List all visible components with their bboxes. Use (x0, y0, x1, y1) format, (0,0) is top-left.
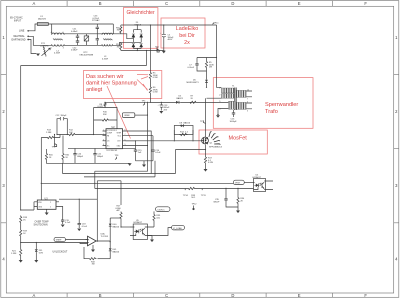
svg-text:680pF: 680pF (97, 156, 104, 158)
resistor R34 (226, 188, 245, 211)
vertical diode rail (109, 218, 111, 259)
svg-text:B: B (99, 1, 102, 6)
svg-text:BAS16: BAS16 (184, 122, 191, 125)
svg-text:A: A (33, 293, 36, 298)
bus wire B (41, 182, 233, 184)
resistor R6 390K (149, 86, 158, 94)
svg-text:F: F (364, 1, 367, 6)
svg-text:0.1uF: 0.1uF (65, 222, 71, 224)
wire ground return bus (21, 51, 147, 211)
main DC+ rail (121, 24, 217, 26)
frame row dividers right (394, 75, 399, 223)
svg-text:0.68uF: 0.68uF (71, 31, 78, 33)
annotation box LadeElko (161, 18, 205, 48)
zener D11 (35, 243, 44, 261)
ground D11 (34, 260, 38, 263)
comp network wire (94, 134, 106, 136)
label OVER TEMP SHUTDOWN (34, 221, 49, 227)
wire R6 to vcc line (149, 94, 151, 102)
frame row dividers left (1, 75, 7, 223)
row labels left (2, 35, 5, 261)
test point TP8 (115, 155, 120, 159)
resistor R51 (116, 42, 122, 50)
gate wire from IC (126, 140, 202, 142)
svg-text:INPUT: INPUT (14, 19, 22, 22)
bridge rectifier D1 label (135, 22, 142, 26)
connector LINE (19, 30, 29, 33)
test point TP5 (147, 102, 148, 146)
secondary winding bottom (237, 101, 252, 112)
svg-text:6: 6 (125, 139, 126, 141)
bridge input wires (112, 34, 141, 46)
svg-text:20V: 20V (164, 109, 168, 111)
ground opto (151, 236, 153, 240)
svg-text:D: D (231, 1, 234, 6)
svg-text:SPL1: SPL1 (214, 23, 220, 25)
svg-text:COMP: COMP (107, 132, 113, 134)
svg-text:F: F (364, 293, 367, 298)
svg-text:anliegt: anliegt (86, 87, 103, 93)
svg-text:A: A (33, 1, 36, 6)
resistor R32 feedback (84, 247, 110, 266)
svg-text:3: 3 (63, 47, 64, 49)
capacitor C12 (56, 115, 68, 135)
net flag 3.3VDC (156, 207, 171, 212)
ground opamp (91, 245, 95, 252)
svg-text:1.38K: 1.38K (46, 132, 52, 134)
net flag VR57 (233, 180, 253, 184)
IC right side caps (126, 140, 142, 161)
svg-text:Gleichrichter: Gleichrichter (127, 10, 155, 16)
resistor R27 (116, 181, 123, 227)
svg-text:0.68uF: 0.68uF (71, 50, 78, 52)
wire opamp plus (80, 243, 86, 244)
svg-text:1W: 1W (92, 264, 95, 266)
heat rays (209, 132, 221, 145)
diode D9 (110, 218, 121, 228)
svg-text:VREF: VREF (124, 115, 130, 117)
common-mode choke L4 (51, 32, 65, 54)
feedback box R10 (94, 108, 117, 135)
svg-text:680nF: 680nF (214, 201, 221, 203)
core (235, 88, 236, 111)
net flag VREF lower (54, 237, 89, 241)
opamp output riser (97, 181, 121, 242)
resistor R39 (150, 211, 161, 227)
test point TP1 (155, 47, 160, 53)
resistor R33 (183, 187, 207, 199)
wire between (149, 80, 151, 87)
svg-text:1000pF: 1000pF (230, 121, 238, 123)
svg-text:BAS16: BAS16 (113, 225, 120, 228)
svg-text:C: C (165, 1, 168, 6)
svg-text:Das suchen wir: Das suchen wir (86, 74, 124, 80)
ground caps (128, 163, 132, 166)
svg-text:UVLOCKOUT: UVLOCKOUT (53, 251, 68, 254)
frame column dividers bottom (67, 293, 332, 297)
svg-text:680pF: 680pF (77, 156, 84, 158)
varistor RT1 (40, 43, 50, 56)
wire rail down to T1 (217, 25, 222, 87)
svg-text:SPP04N80C3: SPP04N80C3 (209, 147, 223, 149)
resistor R19 (20, 224, 28, 243)
optocoupler U4 (121, 220, 152, 240)
primary winding (207, 87, 235, 98)
wire from rail down (149, 25, 151, 72)
svg-text:Trafo: Trafo (265, 109, 278, 115)
resistor R18 (20, 216, 28, 224)
resistor R7 (189, 96, 197, 104)
svg-text:0.1uF: 0.1uF (82, 226, 88, 228)
AC top rail after fuse (48, 24, 113, 34)
svg-text:3.3VDC: 3.3VDC (157, 209, 165, 211)
svg-text:LINE: LINE (19, 30, 25, 33)
bridge bottom rail (121, 49, 165, 51)
net flag /C_LOAD (172, 225, 185, 230)
svg-text:1: 1 (51, 47, 52, 49)
diode D6 (187, 69, 208, 88)
connector EARTH/GND (12, 38, 29, 41)
svg-text:EARTH/GND: EARTH/GND (12, 38, 26, 41)
capacitor C20 (73, 149, 84, 164)
svg-text:39K: 39K (103, 114, 107, 116)
diode D41 (109, 248, 120, 254)
svg-text:4.3mH: 4.3mH (54, 53, 61, 55)
svg-text:1.33K: 1.33K (11, 253, 17, 255)
svg-text:damit hier Spannung: damit hier Spannung (86, 80, 137, 86)
svg-text:D: D (231, 293, 234, 298)
transistor Q1 (202, 137, 214, 144)
ground IC caps (142, 165, 146, 168)
secondary winding top (237, 89, 252, 100)
svg-text:OUT: OUT (117, 141, 121, 143)
connector NEUTRAL (14, 35, 29, 38)
snubber top bar (197, 58, 217, 63)
svg-text:2: 2 (50, 202, 51, 204)
diode D5 (176, 96, 184, 104)
resistor R5 390K (149, 72, 158, 80)
annotation box Das suchen wir (84, 71, 162, 99)
frame column dividers top (67, 1, 332, 7)
svg-text:SHUTDOWN: SHUTDOWN (34, 224, 48, 227)
capacitor C18 (59, 199, 97, 232)
svg-text:UCC38C45: UCC38C45 (107, 150, 118, 152)
test point TP4 (52, 134, 57, 149)
wire NEUTRAL to choke (29, 36, 52, 45)
svg-text:5: 5 (50, 207, 51, 209)
resistor R21 (11, 249, 22, 261)
row labels right (395, 35, 398, 261)
capacitor C53 (92, 16, 100, 46)
left rail down (40, 138, 42, 184)
diode D8 (174, 122, 193, 135)
common-mode choke L3 (102, 33, 112, 60)
svg-text:TP12: TP12 (192, 204, 198, 206)
capacitor C13 (158, 102, 171, 112)
svg-text:10 Ohms: 10 Ohms (40, 46, 48, 48)
capacitor C35 (214, 188, 228, 204)
svg-text:390pF: 390pF (61, 115, 68, 117)
wire rail to IC (41, 135, 93, 138)
resistor R17 (204, 156, 212, 164)
test point TP7 (200, 121, 206, 124)
svg-text:TLC393: TLC393 (101, 236, 109, 238)
ground earth (36, 54, 40, 57)
svg-text:1W: 1W (117, 30, 120, 32)
svg-text:7: 7 (247, 99, 248, 101)
svg-text:TP14: TP14 (183, 195, 189, 197)
annotation leader diagonal to IC pin (107, 86, 131, 139)
svg-text:MosFet: MosFet (229, 136, 248, 142)
resistor R13 (46, 130, 55, 139)
wire vcc (105, 101, 229, 103)
wire LINE to fuse (29, 24, 38, 31)
svg-text:3: 3 (247, 111, 248, 113)
diode D40 (109, 223, 120, 229)
CS feedback wires nested (95, 146, 148, 184)
ground bias (216, 115, 220, 118)
output wire (96, 240, 110, 243)
ground R34 (236, 211, 240, 214)
annotation leader lines to divider resistors (137, 75, 148, 91)
test point TP12 (192, 204, 198, 211)
svg-text:VREF: VREF (117, 132, 122, 134)
svg-text:4: 4 (103, 144, 104, 146)
svg-text:6.8V: 6.8V (39, 252, 44, 254)
annotation box Gleichrichter (123, 8, 157, 49)
filter rails (64, 34, 102, 46)
ground R21 (19, 260, 23, 263)
ground C13 (159, 111, 163, 114)
ground Q1 source (205, 164, 207, 169)
svg-text:1W: 1W (209, 67, 212, 69)
resistor R14 (180, 131, 189, 135)
svg-text:6: 6 (247, 101, 248, 103)
svg-text:3: 3 (103, 139, 104, 141)
svg-text:4.3mH: 4.3mH (102, 58, 109, 60)
svg-text:B: B (99, 293, 102, 298)
svg-text:/C_LOAD: /C_LOAD (173, 227, 182, 230)
capacitor C21 (93, 149, 104, 164)
wire opto to /C_LOAD (147, 228, 171, 236)
svg-text:BAS21: BAS21 (177, 97, 184, 100)
net label SPL1 (213, 23, 220, 25)
IC U2 body (103, 126, 127, 152)
wires D8/R14 to gate (174, 130, 193, 141)
ground C5 (162, 51, 166, 54)
annotation box MosFet (199, 130, 267, 154)
capacitor C5 (160, 25, 174, 51)
svg-text:BAS16: BAS16 (113, 250, 120, 253)
resistor R12 (68, 130, 76, 136)
drain wire (205, 98, 207, 137)
svg-text:5: 5 (125, 144, 126, 146)
bus wire C (95, 183, 254, 188)
bias winding (150, 101, 235, 116)
svg-text:KE14047H488: KE14047H488 (80, 54, 94, 56)
svg-text:8: 8 (125, 130, 126, 132)
capacitor C19 (59, 207, 71, 228)
svg-text:7: 7 (125, 134, 126, 136)
wire EARTH to ground (29, 40, 37, 54)
svg-text:E: E (298, 1, 301, 6)
svg-text:1: 1 (103, 130, 104, 132)
opamp U1A (86, 233, 109, 246)
svg-text:0.01uF: 0.01uF (188, 67, 195, 69)
resistor R50 (116, 25, 122, 34)
bridge rectifier diodes (132, 25, 143, 51)
svg-text:400V: 400V (168, 39, 173, 41)
svg-text:0.5W: 0.5W (153, 77, 158, 79)
column labels top (33, 1, 368, 6)
IC U3 (34, 183, 59, 215)
varistor RT2 (80, 34, 94, 57)
resistor R31 (62, 136, 70, 164)
svg-text:bei Dir: bei Dir (179, 33, 195, 39)
svg-text:10: 10 (247, 89, 249, 91)
svg-text:0.1uF: 0.1uF (155, 152, 161, 154)
capacitor C51 (71, 29, 79, 41)
svg-text:0.5W: 0.5W (153, 92, 158, 94)
capacitor C7 (188, 63, 207, 71)
capacitor C52 (71, 41, 79, 52)
svg-text:E: E (298, 293, 301, 298)
svg-text:1W: 1W (117, 46, 120, 48)
svg-text:VREF: VREF (56, 240, 62, 242)
svg-text:Sperrwandler: Sperrwandler (265, 102, 298, 108)
svg-text:2x: 2x (184, 40, 190, 46)
wires caps to gnd (63, 149, 136, 164)
capacitor C16 (230, 110, 238, 123)
svg-text:TP11: TP11 (201, 195, 207, 197)
resistor R5 100K (205, 61, 214, 69)
svg-text:0.5W: 0.5W (208, 162, 213, 164)
label 85~270VAC INPUT (10, 17, 23, 23)
source wire and CS tap (176, 145, 206, 157)
svg-text:4A/250V: 4A/250V (38, 18, 47, 21)
resistor R16 (45, 149, 63, 163)
svg-text:C: C (165, 293, 168, 298)
feedback resistor R9 (98, 102, 107, 108)
annotation box Sperrwandler Trafo (213, 78, 313, 129)
fuse F1 (37, 16, 48, 25)
svg-text:275VAC: 275VAC (92, 19, 100, 22)
column labels bottom (33, 293, 368, 298)
optocoupler U5 (253, 175, 274, 192)
svg-text:LadeElko: LadeElko (176, 26, 198, 32)
svg-text:MURS160T3: MURS160T3 (187, 82, 200, 84)
wire left rail top (21, 202, 34, 210)
svg-text:VR57: VR57 (235, 183, 241, 185)
net flag VREF (122, 113, 148, 118)
test point TP5 (142, 101, 151, 106)
wire opamp minus input (21, 243, 89, 249)
